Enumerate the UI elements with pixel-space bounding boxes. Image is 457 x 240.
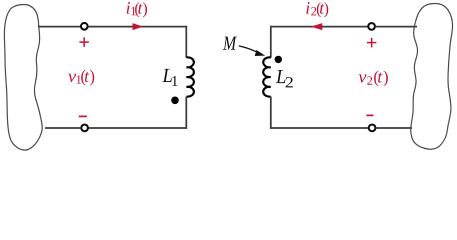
wire left vertical of right loop (upper)	[270, 26, 272, 58]
arrow M to L2	[239, 46, 258, 52]
wire bottom: corner to terminal	[88, 127, 187, 129]
minus sign v1	[79, 115, 87, 117]
terminal top-right	[368, 23, 375, 30]
wire top-right: terminal to blob	[375, 26, 417, 28]
wire bottom-left: terminal to blob	[45, 127, 81, 129]
minus sign v2	[366, 114, 373, 116]
left network blob	[4, 5, 42, 151]
right network blob	[411, 4, 453, 150]
wire right vertical of left loop (upper)	[185, 26, 187, 58]
terminal bottom-left	[81, 125, 88, 132]
wire top: corner to terminal (right)	[270, 26, 368, 28]
current arrow i1	[133, 23, 144, 30]
wire right vertical of left loop (lower)	[185, 97, 187, 129]
inductor L2 coil	[263, 57, 271, 96]
label v1(t)	[68, 70, 94, 86]
wire bottom: corner to terminal (right)	[270, 127, 369, 129]
current arrow i2	[311, 23, 323, 30]
plus sign v2	[367, 38, 377, 48]
wire top-left: blob to terminal	[38, 26, 81, 28]
wire bottom-right: terminal to blob	[376, 127, 412, 129]
polarity dot L2	[275, 56, 282, 63]
label M	[223, 37, 237, 50]
label L1	[162, 69, 177, 86]
terminal top-left	[81, 23, 88, 30]
label v2(t)	[359, 71, 388, 87]
plus sign v1	[79, 37, 89, 47]
wire top: terminal to corner	[88, 26, 187, 28]
polarity dot L1	[171, 97, 179, 105]
label i1(t)	[127, 2, 147, 17]
inductor L1 coil	[186, 57, 194, 96]
label L2	[276, 70, 293, 87]
terminal bottom-right	[369, 125, 376, 132]
wire left vertical of right loop (lower)	[270, 97, 272, 129]
label i2(t)	[306, 2, 328, 17]
